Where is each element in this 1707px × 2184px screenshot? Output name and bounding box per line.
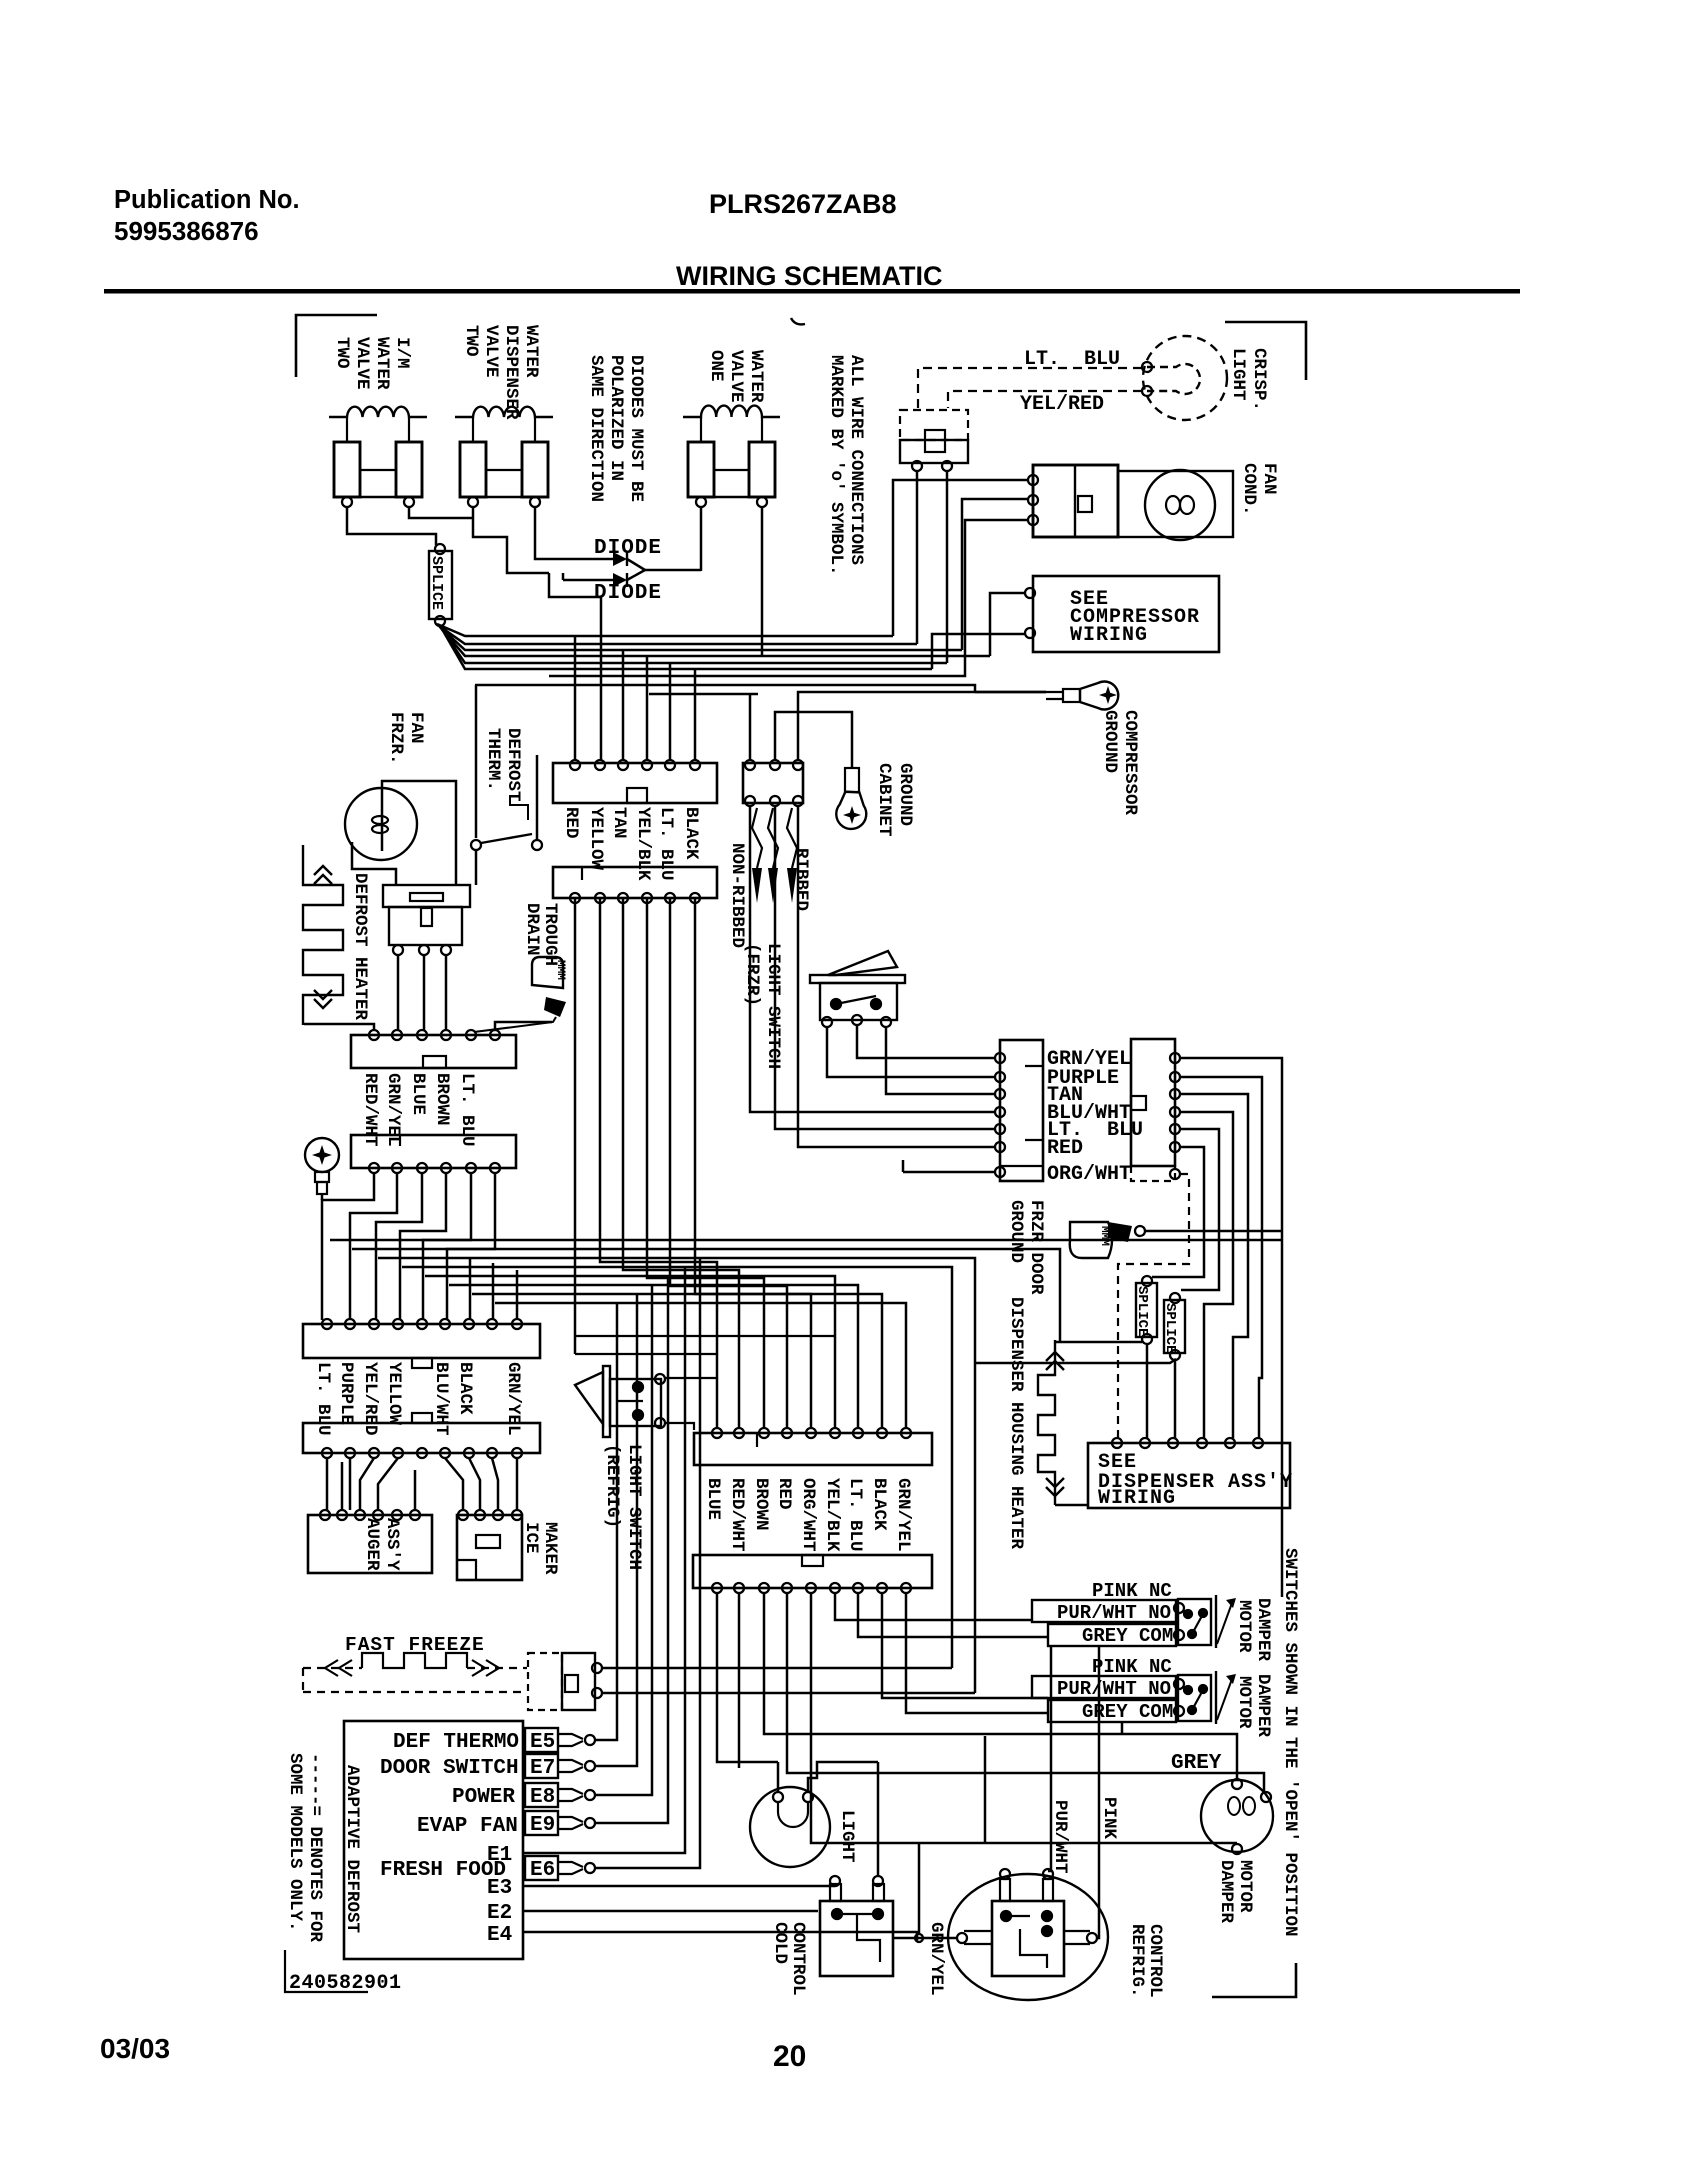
splice S3 box — [1164, 1300, 1185, 1353]
wire riser plug-term-1 — [916, 470, 919, 644]
see-dispenser terminals — [1112, 1438, 1122, 1448]
wire frzr fan enclosure — [382, 781, 456, 884]
svg-text:LT. BLU: LT. BLU — [313, 1362, 333, 1436]
diode D1 — [553, 558, 613, 561]
svg-text:5995386876: 5995386876 — [114, 216, 259, 246]
wire heater to connector — [304, 1024, 374, 1030]
svg-text:Publication No.: Publication No. — [114, 186, 300, 214]
connector C1 body — [553, 763, 717, 803]
svg-text:RED: RED — [561, 807, 581, 839]
lower feed line b — [475, 685, 975, 692]
svg-text:FRZR.: FRZR. — [386, 712, 406, 765]
svg-text:PUR/WHT NO: PUR/WHT NO — [1057, 1678, 1171, 1700]
refrig control terminals top — [1000, 1869, 1010, 1879]
wire frzr-sw t1 — [827, 1027, 996, 1077]
cond fan connector box — [1033, 465, 1118, 537]
svg-text:BLACK: BLACK — [455, 1362, 475, 1415]
wire E5 — [595, 1303, 617, 1740]
svg-text:GREY: GREY — [1171, 1752, 1222, 1775]
svg-text:POWER: POWER — [452, 1786, 515, 1809]
connector C7 terminals — [995, 1053, 1005, 1063]
svg-text:LIGHT: LIGHT — [1228, 348, 1248, 401]
frzr door ground symbol — [1070, 1222, 1112, 1258]
frame bracket bottom-right — [1212, 1963, 1296, 1997]
svg-text:LIGHT: LIGHT — [837, 1810, 857, 1863]
svg-text:MMM: MMM — [554, 960, 566, 980]
svg-text:VALVE: VALVE — [352, 337, 372, 390]
wire frzr fan lead — [352, 842, 396, 884]
svg-text:THERM.: THERM. — [483, 728, 503, 791]
svg-text:PUR/WHT NO: PUR/WHT NO — [1057, 1602, 1171, 1624]
svg-text:DAMPER: DAMPER — [1253, 1674, 1273, 1738]
wire ff t2 — [602, 1692, 975, 1695]
terminal E6 — [525, 1856, 558, 1880]
light lamp — [750, 1787, 830, 1867]
svg-text:LIGHT SWITCH: LIGHT SWITCH — [624, 1444, 644, 1570]
splice S1 terminals — [435, 544, 445, 554]
svg-text:WATER: WATER — [521, 325, 541, 378]
auger terminals — [320, 1510, 330, 1520]
wire valve3-right down to bundle — [761, 507, 764, 656]
svg-text:YEL/RED: YEL/RED — [360, 1362, 380, 1436]
damper sw1 mech — [1178, 1599, 1211, 1645]
wire cold control right up — [877, 1762, 880, 1876]
terminal E8 — [525, 1783, 558, 1807]
svg-text:COLD: COLD — [770, 1922, 790, 1964]
svg-text:POLARIZED IN: POLARIZED IN — [606, 355, 626, 481]
svg-text:GREY COM: GREY COM — [1082, 1701, 1173, 1723]
wire s3 down — [1174, 1360, 1177, 1438]
wire ribbed-1 up — [749, 694, 752, 760]
svg-text:DISPENSER: DISPENSER — [501, 325, 521, 420]
svg-text:PUR/WHT: PUR/WHT — [1050, 1800, 1070, 1874]
water valve two (I/M) coil+solenoid — [329, 407, 427, 417]
connector C8 body — [1131, 1039, 1175, 1166]
wire E4 — [523, 1932, 917, 1941]
crisper light lamp (dashed circle) — [1143, 336, 1227, 420]
connector C4 body — [351, 1135, 516, 1168]
svg-text:BLACK: BLACK — [869, 1478, 889, 1531]
defrost bimetal body — [389, 907, 462, 945]
frame bracket top-left — [296, 315, 377, 377]
wire diode feed vertical — [549, 573, 601, 644]
svg-text:DEFROST: DEFROST — [503, 728, 523, 802]
wire c4-c5 risers — [322, 1173, 495, 1320]
connector C4 terminals — [369, 1163, 379, 1173]
connector C8 terminals — [1170, 1053, 1180, 1063]
svg-text:LIGHT SWITCH: LIGHT SWITCH — [763, 943, 783, 1069]
svg-text:DEF THERMO: DEF THERMO — [393, 1731, 519, 1754]
wire mid risers — [470, 1258, 517, 1320]
wire to compressor ground — [975, 691, 1046, 694]
splice S3 terminals — [1170, 1293, 1180, 1303]
svg-text:MOTOR: MOTOR — [1235, 1860, 1255, 1913]
svg-text:RED: RED — [1047, 1137, 1083, 1160]
connector C7 body — [1000, 1040, 1043, 1181]
svg-text:GROUND: GROUND — [895, 763, 915, 826]
wires c6->icemaker — [445, 1458, 517, 1510]
frame bracket top-right — [1225, 322, 1306, 380]
cond fan terminals — [1028, 475, 1038, 485]
wire riser cond-fan-2 — [962, 499, 1029, 650]
wire valve2-right to diode1 — [535, 507, 553, 559]
svg-text:YELLOW: YELLOW — [586, 807, 606, 871]
svg-text:ONE: ONE — [706, 350, 726, 382]
wire YEL/RED dashed — [948, 391, 1142, 408]
wire drop c1-yellow — [600, 644, 603, 760]
wire sw-to-damper vert — [1121, 1723, 1124, 1734]
refrig control contacts — [1001, 1911, 1011, 1921]
svg-text:(FRZR): (FRZR) — [742, 943, 762, 1006]
wire valve2-left junction — [473, 507, 549, 573]
wire drop c1-black — [694, 669, 697, 760]
svg-text:SAME DIRECTION: SAME DIRECTION — [586, 355, 606, 502]
light switch refrig symbol — [575, 1372, 603, 1424]
wires c6->auger — [327, 1458, 415, 1510]
svg-text:YEL/BLK: YEL/BLK — [822, 1478, 842, 1552]
wire c9 down feeds — [717, 1593, 1264, 1843]
wire valve1-left to splice top — [347, 507, 436, 545]
svg-text:DISPENSER HOUSING HEATER: DISPENSER HOUSING HEATER — [1006, 1297, 1026, 1550]
wire E6 — [595, 1258, 700, 1868]
svg-text:DIODE: DIODE — [594, 582, 662, 605]
wire frzr door ground — [1145, 1230, 1282, 1233]
svg-text:CRISP.: CRISP. — [1249, 348, 1269, 411]
svg-text:PURPLE: PURPLE — [336, 1362, 356, 1425]
light switch frzr body — [820, 983, 897, 1020]
connector C5 body — [303, 1324, 540, 1358]
wire light feeds — [778, 1762, 878, 1792]
svg-text:FRZR DOOR: FRZR DOOR — [1026, 1200, 1046, 1295]
svg-text:ALL WIRE CONNECTIONS: ALL WIRE CONNECTIONS — [846, 355, 866, 565]
svg-text:WIRING: WIRING — [1098, 1487, 1176, 1510]
svg-text:MARKED BY 'o' SYMBOL.: MARKED BY 'o' SYMBOL. — [826, 355, 846, 576]
svg-text:LT. BLU: LT. BLU — [656, 807, 676, 881]
svg-text:E7: E7 — [530, 1757, 555, 1780]
svg-text:VALVE: VALVE — [726, 350, 746, 403]
damper motor — [1201, 1780, 1273, 1852]
svg-text:WATER: WATER — [746, 350, 766, 403]
svg-text:GRN/YEL: GRN/YEL — [926, 1922, 946, 1996]
svg-text:E9: E9 — [530, 1814, 555, 1837]
footer part number underline+bracket — [285, 1950, 368, 1992]
svg-text:GROUND: GROUND — [1006, 1200, 1026, 1263]
wire defrost therm up — [536, 755, 539, 840]
wire riser compressor-2 — [932, 634, 1026, 669]
dispenser heater arrows — [1046, 1352, 1064, 1370]
cond fan housing — [1118, 471, 1233, 537]
wire pink — [1097, 1647, 1099, 1938]
light lamp terminals — [773, 1792, 783, 1802]
damper motor terminals — [1232, 1779, 1242, 1789]
defrost heater element — [303, 845, 343, 1025]
wire splice3 bottom — [975, 1359, 1176, 1363]
svg-text:TWO: TWO — [332, 337, 352, 369]
wire E9 — [595, 1276, 668, 1823]
connector C10 terminals — [712, 1428, 722, 1438]
wire s2 down — [1146, 1344, 1149, 1438]
connector C6 terminals — [322, 1448, 332, 1458]
damper sw1 cable1 — [1032, 1600, 1176, 1622]
crisp-light connector terminals — [912, 461, 922, 471]
connector ribbed body — [743, 763, 803, 803]
splice S1 box — [429, 551, 452, 619]
svg-text:LT. BLU: LT. BLU — [845, 1478, 865, 1552]
svg-text:SPLICE: SPLICE — [1134, 1286, 1150, 1336]
cabinet ground symbol — [845, 768, 859, 792]
title underline — [104, 289, 1520, 294]
svg-text:YELLOW: YELLOW — [384, 1362, 404, 1426]
svg-text:WIRING SCHEMATIC: WIRING SCHEMATIC — [676, 261, 942, 291]
svg-text:DAMPER: DAMPER — [1216, 1860, 1236, 1924]
svg-text:MOTOR: MOTOR — [1234, 1600, 1254, 1653]
adaptive defrost box — [344, 1721, 523, 1959]
svg-text:CABINET: CABINET — [874, 763, 894, 837]
water valve one coil+solenoid — [683, 406, 780, 417]
see-compressor terminals — [1025, 588, 1035, 598]
svg-text:MAKER: MAKER — [540, 1522, 560, 1575]
wire riser cond-fan-1 — [893, 480, 1029, 636]
svg-text:YEL/BLK: YEL/BLK — [633, 807, 653, 881]
wire drop c1-tan — [622, 650, 625, 760]
defrost therm leader — [510, 795, 528, 820]
light switch frzr terminals — [822, 1017, 832, 1027]
svg-text:ORG/WHT: ORG/WHT — [1047, 1163, 1131, 1186]
wire frzr-sw t3 — [886, 1027, 996, 1094]
frzr fan motor — [345, 788, 417, 860]
ice maker box — [457, 1515, 522, 1580]
connector C3 body — [351, 1035, 516, 1068]
svg-text:COMPRESSOR: COMPRESSOR — [1120, 710, 1140, 816]
wire pur/wht — [1048, 1647, 1051, 1871]
svg-text:ADAPTIVE DEFROST: ADAPTIVE DEFROST — [342, 1765, 362, 1933]
wire refrig right stub — [1097, 1937, 1099, 1940]
svg-text:COND.: COND. — [1239, 463, 1259, 516]
connector C1 terminals — [570, 760, 580, 770]
connector ribbed bottom terminals — [745, 796, 755, 806]
ribbed wire arrows — [752, 808, 797, 868]
svg-text:RED/WHT: RED/WHT — [727, 1478, 747, 1552]
damper sw2 cable2 — [1048, 1700, 1176, 1722]
wire drop c1-red — [574, 636, 577, 760]
ice maker terminals — [458, 1510, 468, 1520]
svg-text:NON-RIBBED: NON-RIBBED — [727, 843, 747, 948]
wire bimetal t3 down — [445, 955, 448, 1030]
svg-text:BLUE: BLUE — [408, 1073, 428, 1115]
svg-text:ORG/WHT: ORG/WHT — [798, 1478, 818, 1552]
cond fan motor — [1145, 470, 1215, 540]
svg-text:E4: E4 — [487, 1924, 512, 1947]
svg-text:CONTROL: CONTROL — [1145, 1924, 1165, 1998]
svg-text:20: 20 — [773, 2040, 806, 2073]
wire ribbed-2 up — [775, 712, 852, 768]
svg-text:PLRS267ZAB8: PLRS267ZAB8 — [709, 189, 897, 219]
splice fanout bundle — [437, 624, 990, 669]
defrost bimetal terminals — [393, 945, 403, 955]
svg-text:I/M: I/M — [392, 337, 412, 369]
svg-text:EVAP FAN: EVAP FAN — [417, 1815, 518, 1838]
svg-text:E2: E2 — [487, 1902, 512, 1925]
connector C2 terminals — [570, 893, 580, 903]
connector C10 body — [694, 1433, 932, 1465]
refrig control ellipse — [948, 1874, 1108, 2000]
wires c8 right — [1152, 1058, 1282, 1597]
wire bimetal t1 down — [397, 955, 400, 1030]
wire E7 — [595, 1294, 637, 1766]
wire valve1-right to diode2 — [409, 507, 473, 518]
wire c7 feed 6 — [798, 806, 996, 1147]
svg-text:FAN: FAN — [1259, 463, 1279, 495]
connector ribbed top terminals — [745, 760, 755, 770]
svg-text:GROUND: GROUND — [1100, 710, 1120, 773]
frame mark top-center — [791, 318, 805, 324]
svg-text:GREY COM: GREY COM — [1082, 1625, 1173, 1647]
connector C9 terminals — [712, 1583, 722, 1593]
cold control contacts — [832, 1909, 842, 1919]
wire ribbed-3 up — [798, 692, 1046, 760]
svg-text:-----= DENOTES FOR: -----= DENOTES FOR — [305, 1753, 325, 1943]
fast freeze arrows — [325, 1660, 499, 1676]
defrost therm switch — [471, 840, 481, 850]
svg-text:E8: E8 — [530, 1786, 555, 1809]
wire heater bottom — [1055, 1504, 1088, 1507]
lower feed line c — [649, 693, 758, 696]
svg-text:SOME MODELS ONLY.: SOME MODELS ONLY. — [285, 1753, 305, 1932]
splice S2 terminals — [1142, 1276, 1152, 1286]
terminal E7 — [525, 1754, 558, 1778]
svg-text:BROWN: BROWN — [751, 1478, 771, 1531]
fast freeze connector — [528, 1653, 562, 1710]
svg-text:BLACK: BLACK — [681, 807, 701, 860]
svg-text:DEFROST HEATER: DEFROST HEATER — [350, 873, 370, 1021]
svg-text:DAMPER: DAMPER — [1253, 1598, 1273, 1662]
svg-text:(REFRIG): (REFRIG) — [602, 1444, 622, 1528]
wire ff t1 — [602, 1667, 952, 1670]
svg-text:TWO: TWO — [461, 325, 481, 357]
svg-text:DRAIN: DRAIN — [522, 903, 542, 956]
wire LT.BLU dashed — [918, 368, 1142, 408]
svg-text:E6: E6 — [530, 1859, 555, 1882]
svg-text:CONTROL: CONTROL — [788, 1922, 808, 1996]
wire heater top — [1055, 1341, 1142, 1344]
lower feed line b2 — [549, 520, 1029, 676]
wire E1 — [523, 1267, 685, 1853]
long bundle across page — [330, 1240, 1282, 1693]
cold control terminals — [830, 1876, 840, 1886]
svg-text:PINK: PINK — [1099, 1797, 1119, 1840]
crisp-light connector housing solid — [900, 440, 968, 463]
svg-text:ICE: ICE — [521, 1522, 541, 1554]
svg-text:RIBBED: RIBBED — [791, 848, 811, 911]
wire E3 — [523, 1885, 835, 1888]
svg-text:SWITCHES SHOWN IN THE 'OPEN' P: SWITCHES SHOWN IN THE 'OPEN' POSITION — [1280, 1548, 1300, 1937]
splice S2 box — [1136, 1283, 1157, 1337]
wire c7 feed 5 — [775, 806, 996, 1129]
svg-text:WIRING: WIRING — [1070, 624, 1148, 647]
crisp-light connector housing dashed — [900, 410, 968, 440]
svg-text:SPLICE: SPLICE — [428, 556, 445, 610]
wire damper feed vert — [984, 1736, 987, 1843]
dispenser heater element — [1038, 1340, 1055, 1505]
wire drop c1-yelblk — [646, 656, 649, 760]
see-compressor-wiring box — [1033, 576, 1219, 652]
diode D2 — [563, 579, 613, 582]
wire bimetal t2 down — [423, 955, 426, 1030]
connector C3 terminals — [369, 1030, 379, 1040]
water dispenser valve two coil+solenoid — [455, 407, 553, 417]
auger assy box — [308, 1515, 432, 1573]
wire riser compressor-1 — [990, 593, 1026, 656]
refrig control side stubs — [964, 1931, 1090, 1944]
svg-text:E3: E3 — [487, 1877, 512, 1900]
svg-text:DOOR SWITCH: DOOR SWITCH — [380, 1757, 519, 1780]
wire c8 orgwht dashed — [1118, 1174, 1189, 1438]
cabinet ground 2 symbol — [312, 1145, 332, 1165]
wire E8 — [595, 1285, 652, 1795]
svg-text:GRN/YEL: GRN/YEL — [503, 1362, 523, 1436]
svg-text:DIODES MUST BE: DIODES MUST BE — [626, 355, 646, 502]
wire frzr-sw t2 — [857, 1025, 996, 1058]
wire vertical passthrough c2 — [575, 898, 811, 1428]
light switch frzr contacts — [831, 999, 841, 1009]
wire c7 orgwht feed — [903, 1171, 996, 1174]
svg-text:FAN: FAN — [406, 712, 426, 744]
wire E2 — [523, 1910, 818, 1913]
connector C5 terminals — [322, 1319, 332, 1329]
defrost bimetal bar — [383, 885, 470, 907]
svg-text:REFRIG.: REFRIG. — [1127, 1924, 1147, 1998]
svg-text:03/03: 03/03 — [100, 2033, 170, 2064]
defrost heater arrows — [314, 866, 332, 884]
fast freeze connector terminals — [592, 1663, 602, 1673]
terminal E9 — [525, 1811, 558, 1835]
svg-text:YEL/RED: YEL/RED — [1020, 393, 1104, 416]
wire c3 t6 feed — [495, 1022, 552, 1030]
svg-text:TAN: TAN — [609, 807, 629, 839]
wire drop c1-ltblu — [669, 663, 672, 760]
svg-text:VALVE: VALVE — [481, 325, 501, 378]
damper sw2 cable1 — [1032, 1676, 1176, 1698]
terminal E5 — [525, 1728, 558, 1752]
light switch frzr bar — [810, 975, 905, 983]
svg-text:PINK NC: PINK NC — [1092, 1656, 1172, 1678]
svg-text:BLU/WHT: BLU/WHT — [431, 1362, 451, 1436]
wire riser plug-term-2 — [946, 470, 949, 663]
wire defrost therm down — [475, 850, 478, 885]
refrig control box — [992, 1901, 1064, 1976]
wire c10 branch lines — [575, 1336, 835, 1354]
cold control box — [820, 1901, 893, 1976]
svg-text:ASS'Y: ASS'Y — [382, 1518, 402, 1571]
damper sw1 cable2 — [1048, 1624, 1176, 1646]
svg-text:AUGER: AUGER — [362, 1518, 382, 1571]
see-dispenser box — [1088, 1443, 1290, 1508]
wire c7 feed 4 — [750, 806, 996, 1112]
svg-text:MOTOR: MOTOR — [1234, 1676, 1254, 1729]
svg-text:SPLICE: SPLICE — [1162, 1303, 1178, 1353]
connector C2 body — [553, 867, 717, 898]
wire valve3-left to diode output — [700, 507, 703, 571]
svg-text:E5: E5 — [530, 1731, 555, 1754]
svg-text:GRN/YEL: GRN/YEL — [893, 1478, 913, 1552]
light switch frzr flag — [828, 951, 897, 975]
svg-text:RED: RED — [774, 1478, 794, 1510]
connector C6 body — [303, 1423, 540, 1453]
crisper light terminals — [1142, 362, 1152, 372]
connector C9 body — [693, 1555, 932, 1588]
drain trough contact — [544, 997, 566, 1017]
svg-text:WATER: WATER — [372, 337, 392, 390]
